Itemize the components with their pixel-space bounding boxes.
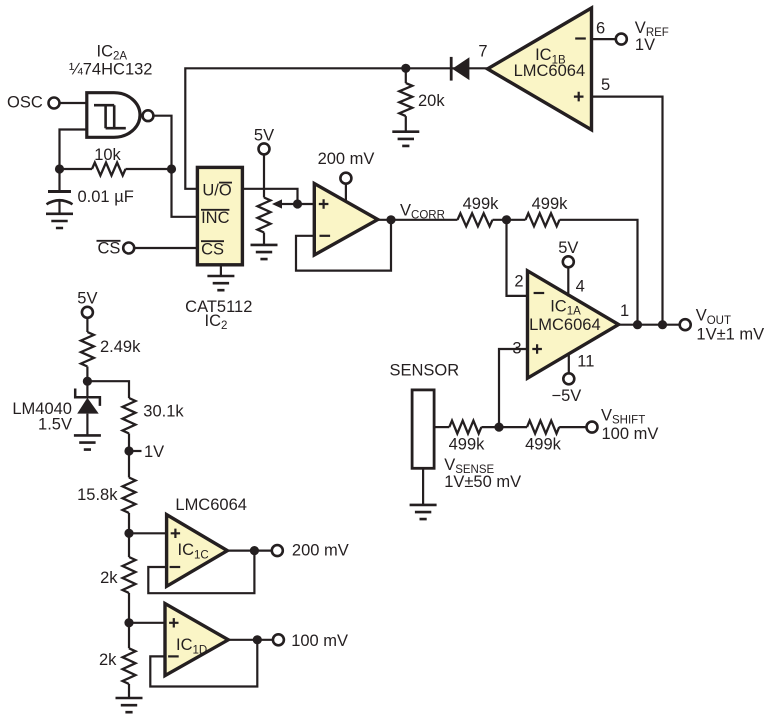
svg-text:11: 11 [577, 352, 594, 370]
svg-text:4: 4 [576, 278, 585, 296]
svg-text:2: 2 [514, 273, 523, 291]
resistor 499k (sensor) [449, 421, 486, 454]
node VREF terminal [616, 34, 627, 45]
svg-text:15.8k: 15.8k [77, 486, 118, 504]
svg-text:OSC: OSC [7, 94, 43, 112]
ground below capacitor [46, 214, 73, 228]
zener LM4040 1.5V [12, 381, 100, 435]
svg-text:1V±50 mV: 1V±50 mV [444, 473, 521, 491]
wire sensor to 499k [434, 426, 449, 428]
resistor 15.8k [77, 451, 135, 533]
svg-text:30.1k: 30.1k [143, 403, 184, 421]
ground below pot [251, 245, 278, 259]
digital pot CAT5112 IC2 box [197, 167, 242, 264]
ground below 20k [392, 132, 419, 146]
wire tap to IC1C + [129, 532, 166, 534]
op-amp IC1C [167, 515, 228, 587]
svg-text:10k: 10k [94, 146, 121, 164]
wire sensor node to IC1A pin 3 [499, 349, 527, 427]
op-amp 200mV buffer [314, 184, 378, 256]
junction 10k right [167, 164, 176, 173]
pin 11 supply of IC1A [551, 352, 594, 405]
svg-text:499k: 499k [525, 436, 562, 454]
junction summing node [502, 215, 511, 224]
svg-text:1V: 1V [635, 36, 655, 54]
capacitor 0.01uF [47, 169, 134, 214]
pin 4 supply of IC1A [558, 239, 585, 297]
svg-text:5V: 5V [77, 290, 97, 308]
junction IC1D output [253, 635, 262, 644]
wire buffer output (VCORR) [377, 219, 458, 221]
node 1V tap [124, 443, 164, 461]
resistor 2k (lower) [99, 623, 136, 698]
wire IC1C output [227, 549, 271, 551]
svg-text:499k: 499k [532, 195, 569, 213]
junction diode node [401, 64, 410, 73]
svg-text:100 mV: 100 mV [291, 632, 348, 650]
junction 200mV tap [124, 529, 133, 538]
resistor 2k (upper) [100, 533, 135, 623]
wire IC1D feedback [150, 640, 257, 687]
wire 5V to potentiometer [263, 154, 265, 197]
junction buffer output [386, 215, 395, 224]
node VOUT terminal [680, 319, 691, 330]
svg-text:1V±1 mV: 1V±1 mV [696, 325, 764, 343]
node VSHIFT terminal [587, 422, 598, 433]
potentiometer resistor element [258, 198, 271, 233]
wire between 499k resistors [493, 219, 526, 221]
resistor 2.49k [81, 318, 141, 381]
svg-text:20k: 20k [418, 92, 445, 110]
wire U/O pin to wiper node [242, 189, 297, 204]
junction pin5 wire on output [658, 320, 667, 329]
svg-text:INC: INC [201, 209, 230, 227]
node 200mV output terminal [272, 545, 283, 556]
svg-text:2.49k: 2.49k [100, 338, 141, 356]
wire sensor to ground [422, 468, 424, 504]
wire gate output down to INC pin [153, 116, 197, 217]
wire IC1B pin5 down to VOUT [592, 97, 663, 325]
wire IC1C feedback [148, 551, 254, 594]
wire pot to ground [263, 233, 265, 245]
wire IC1A output rail [619, 324, 680, 326]
resistor 20k [399, 68, 445, 131]
node 100mV output terminal [273, 634, 284, 645]
wire CAT5112 to ground [220, 265, 222, 276]
svg-text:U/O: U/O [202, 181, 232, 199]
wire summing node to IC1A pin 2 [507, 220, 528, 296]
node 200mV supply terminal on buffer [318, 150, 375, 201]
op-amp IC1D [165, 604, 228, 676]
svg-text:200 mV: 200 mV [292, 542, 349, 560]
svg-text:5V: 5V [558, 239, 578, 257]
junction IC1C output [250, 546, 259, 555]
resistor 30.1k [123, 398, 185, 451]
svg-text:2k: 2k [100, 569, 118, 587]
svg-text:0.01 µF: 0.01 µF [78, 188, 134, 206]
junction 100mV tap [124, 618, 133, 627]
svg-text:5: 5 [601, 76, 610, 94]
op-amp IC1B LMC6064 [488, 8, 592, 130]
junction feedback on output [633, 320, 642, 329]
wire tap to IC1D + [129, 622, 165, 624]
svg-text:200 mV: 200 mV [318, 150, 375, 168]
resistor 499k (first) [458, 195, 500, 226]
wire sensor summing node [481, 426, 527, 428]
wire 499k feedback to VOUT node [560, 220, 638, 325]
wire CS terminal to CAT5112 [134, 247, 197, 249]
gate IC2A Schmitt NAND [87, 93, 154, 138]
sensor element box [412, 390, 434, 468]
svg-text:5V: 5V [254, 127, 274, 145]
wire to VSHIFT terminal [559, 426, 586, 428]
svg-text:CS: CS [98, 240, 121, 258]
junction wiper node [293, 199, 302, 208]
junction 10k left [55, 164, 64, 173]
resistor 10k [60, 146, 172, 176]
ground bottom of divider [116, 698, 143, 712]
svg-text:499k: 499k [463, 195, 500, 213]
wire reference node to 30.1k [87, 381, 129, 398]
svg-text:LMC6064: LMC6064 [529, 316, 601, 334]
diode D1 [451, 57, 469, 81]
junction sensor summing node [494, 423, 503, 432]
wire buffer feedback [296, 220, 391, 271]
resistor 499k (shift) [525, 421, 562, 454]
wire wiper node to buffer + input [298, 203, 315, 205]
ground below CAT5112 [207, 276, 234, 290]
svg-text:6: 6 [596, 20, 605, 38]
wire IC1D output [228, 639, 273, 641]
svg-text:CS: CS [201, 240, 224, 258]
svg-text:LMC6064: LMC6064 [514, 62, 586, 80]
svg-text:LMC6064: LMC6064 [175, 496, 247, 514]
svg-text:1V: 1V [144, 443, 164, 461]
ground below sensor [410, 505, 437, 519]
ground below zener [74, 435, 101, 449]
op-amp IC1A LMC6064 [528, 271, 619, 378]
resistor 499k (feedback) [526, 195, 569, 226]
svg-text:7: 7 [478, 43, 487, 61]
svg-text:3: 3 [512, 339, 521, 357]
junction reference node [83, 377, 92, 386]
svg-text:SENSOR: SENSOR [390, 361, 460, 379]
svg-text:1.5V: 1.5V [38, 416, 72, 434]
wire U/O pin up and across to diode node [185, 68, 405, 189]
svg-text:499k: 499k [449, 436, 486, 454]
wire pin 6 to VREF terminal [592, 38, 616, 40]
svg-text:1: 1 [620, 302, 629, 320]
wire gate second input from 10k node [60, 130, 88, 170]
svg-text:100 mV: 100 mV [602, 425, 659, 443]
wire OSC input to gate [60, 102, 87, 104]
svg-text:2k: 2k [99, 651, 117, 669]
svg-text:−5V: −5V [551, 387, 581, 405]
wire diode node to IC1B apex [406, 67, 488, 69]
node CS terminal [97, 240, 135, 258]
wiper arrow into pot [281, 203, 295, 205]
svg-text:¼74HC132: ¼74HC132 [69, 61, 152, 79]
